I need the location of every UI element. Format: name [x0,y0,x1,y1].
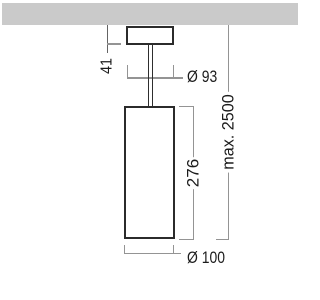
dimension 276 bottom tick [179,239,194,240]
dimension D100 line [124,253,181,254]
dimension D100 left tick [124,245,125,255]
dimension max 2500 bottom tick [216,239,229,240]
stem right wire [152,45,153,107]
ceiling [2,3,298,25]
dimension 276 line [193,106,194,240]
dimension max 2500 line [228,25,229,241]
stem left wire [148,45,149,107]
cylinder body [124,106,174,239]
dimension 41 extension line [107,25,108,53]
dimension max 2500 label [220,91,237,172]
dimension D93 label [187,68,217,85]
dimension 276 label [184,157,201,189]
dimension 41 label [99,58,116,74]
dimension 276 top tick [179,106,194,107]
dimension D100 right tick [173,245,174,255]
dimension D93 line [127,77,183,78]
dimension D93 left tick [127,65,128,79]
dimension D100 label [187,249,225,266]
dimension D93 right tick [173,65,174,79]
canopy [126,26,174,45]
dimension 41 tick [107,43,122,44]
